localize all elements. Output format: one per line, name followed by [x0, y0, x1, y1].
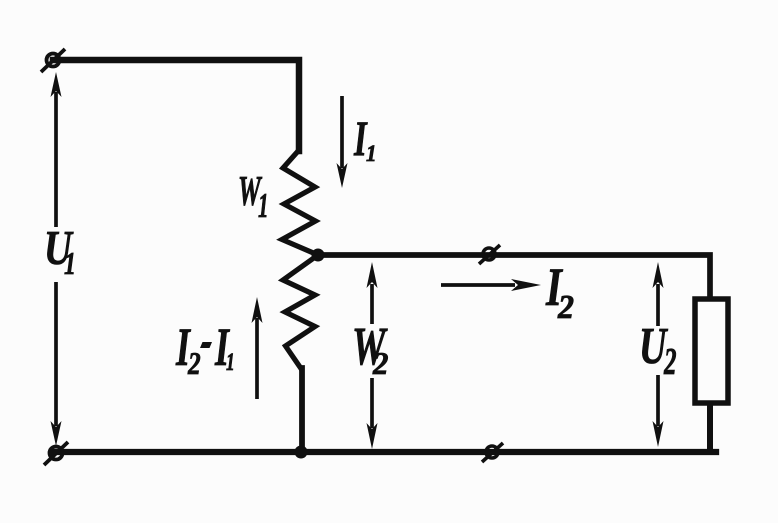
- svg-text:1: 1: [64, 247, 76, 282]
- svg-text:2: 2: [372, 346, 388, 381]
- svg-text:2: 2: [187, 346, 201, 382]
- svg-text:2: 2: [557, 289, 574, 326]
- svg-text:2: 2: [663, 341, 676, 384]
- svg-text:1: 1: [366, 140, 376, 166]
- svg-text:1: 1: [258, 187, 269, 226]
- svg-text:1: 1: [226, 347, 235, 376]
